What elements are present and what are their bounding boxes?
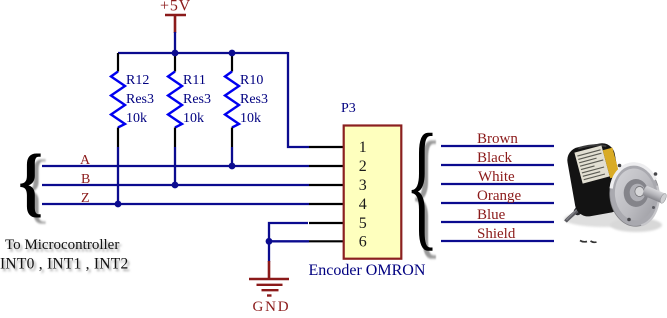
wire pin6 stub — [269, 240, 309, 242]
svg-text:Res3: Res3 — [240, 92, 268, 107]
svg-text:To Microcontroller: To Microcontroller — [5, 237, 119, 253]
connector P3 body — [344, 126, 402, 259]
encoder shadow — [564, 211, 644, 227]
svg-text:Encoder OMRON: Encoder OMRON — [309, 262, 426, 279]
encoder flange — [607, 161, 663, 228]
wire rail drop to pin1 — [288, 52, 309, 147]
wire White — [441, 183, 554, 185]
wire +5V stem — [174, 32, 176, 54]
wire R10 lead down to A — [231, 147, 233, 166]
wire Brown — [441, 145, 554, 147]
svg-text:Res3: Res3 — [183, 92, 211, 107]
resistor R12 — [111, 53, 154, 147]
svg-text:B: B — [81, 172, 90, 187]
svg-text:Orange: Orange — [477, 188, 521, 204]
encoder cable — [578, 201, 587, 212]
wire A — [42, 165, 309, 167]
wire Shield — [441, 240, 554, 242]
svg-text:1: 1 — [359, 139, 367, 156]
svg-text:3: 3 — [359, 177, 367, 194]
svg-text:Brown: Brown — [477, 131, 518, 147]
svg-text:R11: R11 — [183, 73, 206, 88]
connector P3 pin 5 — [309, 222, 343, 224]
svg-text:Shield: Shield — [477, 226, 516, 242]
flange screws — [618, 164, 622, 168]
svg-text:10k: 10k — [240, 111, 261, 126]
junction on rail at R10 — [229, 50, 236, 57]
junction A/R10 — [229, 163, 236, 170]
svg-text:2: 2 — [359, 158, 367, 175]
encoder body — [565, 141, 624, 218]
svg-text:10k: 10k — [126, 111, 147, 126]
svg-text:{: { — [18, 139, 43, 224]
svg-text:R10: R10 — [240, 73, 263, 88]
svg-text:P3: P3 — [341, 101, 356, 116]
svg-text:5: 5 — [359, 215, 367, 232]
encoder label sticker — [574, 143, 620, 186]
encoder photo — [564, 141, 667, 242]
svg-text:R12: R12 — [126, 73, 149, 88]
junction gnd — [266, 238, 273, 245]
wire R11 lead down to B — [174, 147, 176, 185]
wire Orange — [441, 202, 554, 204]
wire Blue — [441, 221, 554, 223]
svg-text:6: 6 — [359, 234, 367, 251]
svg-text:A: A — [80, 153, 91, 168]
svg-text:White: White — [478, 169, 515, 185]
wire +5V rail — [118, 52, 288, 54]
wire Black — [441, 164, 554, 166]
junction B/R11 — [172, 182, 179, 189]
ground GND — [249, 261, 290, 315]
junction Z/R12 — [115, 201, 122, 208]
svg-text:Blue: Blue — [477, 207, 506, 223]
photo tick marks — [580, 241, 587, 242]
svg-text:10k: 10k — [183, 111, 204, 126]
encoder shaft — [642, 185, 667, 204]
connector P3 pin 6 — [309, 240, 343, 242]
svg-text:+5V: +5V — [160, 0, 191, 15]
svg-text:GND: GND — [253, 299, 291, 313]
wire Z — [42, 203, 309, 205]
encoder hub — [624, 179, 649, 207]
svg-text:Res3: Res3 — [126, 92, 154, 107]
junction on rail at R11/+5V — [172, 50, 179, 57]
power symbol +5V — [160, 0, 191, 33]
connector P3 pin 3 — [309, 184, 343, 186]
resistor R10 — [225, 53, 268, 147]
svg-text:Z: Z — [81, 191, 90, 206]
resistor R11 — [168, 53, 211, 147]
wire B — [42, 184, 309, 186]
svg-text:INT0 , INT1 , INT2: INT0 , INT1 , INT2 — [0, 256, 128, 273]
svg-text:Black: Black — [477, 150, 512, 166]
wire pin5 to gnd column — [269, 223, 308, 262]
connector P3 pin 1 — [309, 146, 343, 148]
connector P3 pin 4 — [309, 203, 343, 205]
svg-text:4: 4 — [359, 196, 367, 213]
connector P3 pin 2 — [309, 165, 343, 167]
wire R12 lead down to Z — [117, 147, 119, 204]
svg-text:{: { — [405, 106, 439, 263]
